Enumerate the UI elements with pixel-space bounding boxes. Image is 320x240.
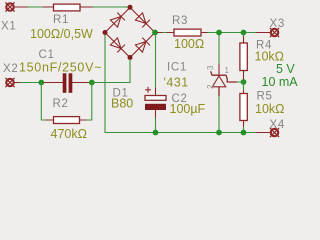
svg-text:470kΩ: 470kΩ	[51, 127, 87, 140]
svg-text:R3: R3	[172, 15, 188, 27]
wire IC1 cathode	[218, 35, 220, 65]
diode D1d (bottom node to right node)	[135, 38, 149, 52]
node right (junction)	[152, 30, 158, 36]
bridge node left	[103, 30, 108, 35]
svg-text:10kΩ: 10kΩ	[255, 102, 285, 116]
wire IC1 ref to divider	[237, 81, 244, 83]
svg-text:X3: X3	[270, 18, 285, 30]
node R5 ground	[241, 130, 247, 136]
svg-text:100Ω: 100Ω	[174, 37, 204, 51]
svg-text:10 mA: 10 mA	[262, 75, 299, 89]
wire bridge right to C2	[155, 35, 157, 88]
wire R3 to X3	[208, 32, 256, 34]
terminal X2	[6, 78, 20, 87]
terminal X3	[270, 28, 279, 37]
svg-text:C1: C1	[39, 49, 55, 61]
wire bridge right to R3	[158, 32, 164, 34]
svg-text:2: 2	[206, 84, 215, 89]
terminal X4	[270, 128, 279, 137]
svg-text:100µF: 100µF	[170, 102, 206, 116]
svg-text:R1: R1	[53, 14, 69, 26]
diode D1b (top node to right node)	[135, 13, 149, 27]
diode D1c (left node to bottom node)	[110, 38, 124, 52]
svg-text:X2: X2	[3, 63, 18, 75]
svg-text:X4: X4	[270, 119, 285, 131]
svg-text:X1: X1	[1, 21, 16, 33]
bridge rectifier D1 frame	[105, 8, 155, 58]
resistor R2	[46, 117, 87, 124]
resistor R1	[43, 4, 93, 11]
node C1 left	[38, 80, 44, 86]
svg-text:3: 3	[206, 65, 215, 70]
svg-text:100Ω/0,5W: 100Ω/0,5W	[30, 27, 93, 41]
wire C2 to ground rail	[155, 118, 157, 133]
svg-text:IC1: IC1	[167, 62, 187, 74]
node divider midpoint	[241, 79, 247, 85]
capacitor C1	[44, 73, 89, 93]
wire IC1 anode to ground rail	[218, 96, 220, 133]
svg-text:R5: R5	[257, 91, 273, 103]
svg-text:150nF/250V~: 150nF/250V~	[19, 61, 102, 75]
wire R2 branch right	[87, 83, 92, 121]
terminal X1	[6, 3, 28, 12]
resistor R4	[240, 36, 247, 82]
wire R2 branch left	[41, 83, 46, 121]
op-amp U1 (TL431 shunt regulator IC1)	[211, 72, 237, 96]
resistor R3	[167, 29, 208, 36]
capacitor C2 (polarized)	[145, 87, 166, 118]
wire C1 right to bridge bottom	[89, 60, 130, 83]
svg-text:1: 1	[225, 66, 230, 75]
svg-text:'431: '431	[164, 76, 189, 90]
diode D1a (left node to top node)	[110, 13, 124, 27]
bridge node bottom	[128, 55, 133, 60]
node IC1 anode ground	[216, 130, 222, 136]
wire ground rail to X4	[256, 132, 271, 134]
wire X1 to R1	[28, 6, 43, 8]
svg-text:R2: R2	[53, 98, 69, 110]
wire R1 to bridge top	[93, 6, 130, 8]
wire X2 to C1	[20, 82, 44, 84]
svg-text:5 V: 5 V	[276, 62, 295, 76]
wire ground rail from bridge left	[105, 35, 256, 133]
junction node at R4 top	[241, 30, 247, 36]
node C1 right	[89, 80, 95, 86]
resistor R5	[240, 90, 247, 127]
bridge node top	[128, 5, 133, 10]
junction node at IC1 cathode	[216, 30, 222, 36]
node C2 ground	[153, 130, 159, 136]
svg-text:B80: B80	[111, 97, 133, 111]
